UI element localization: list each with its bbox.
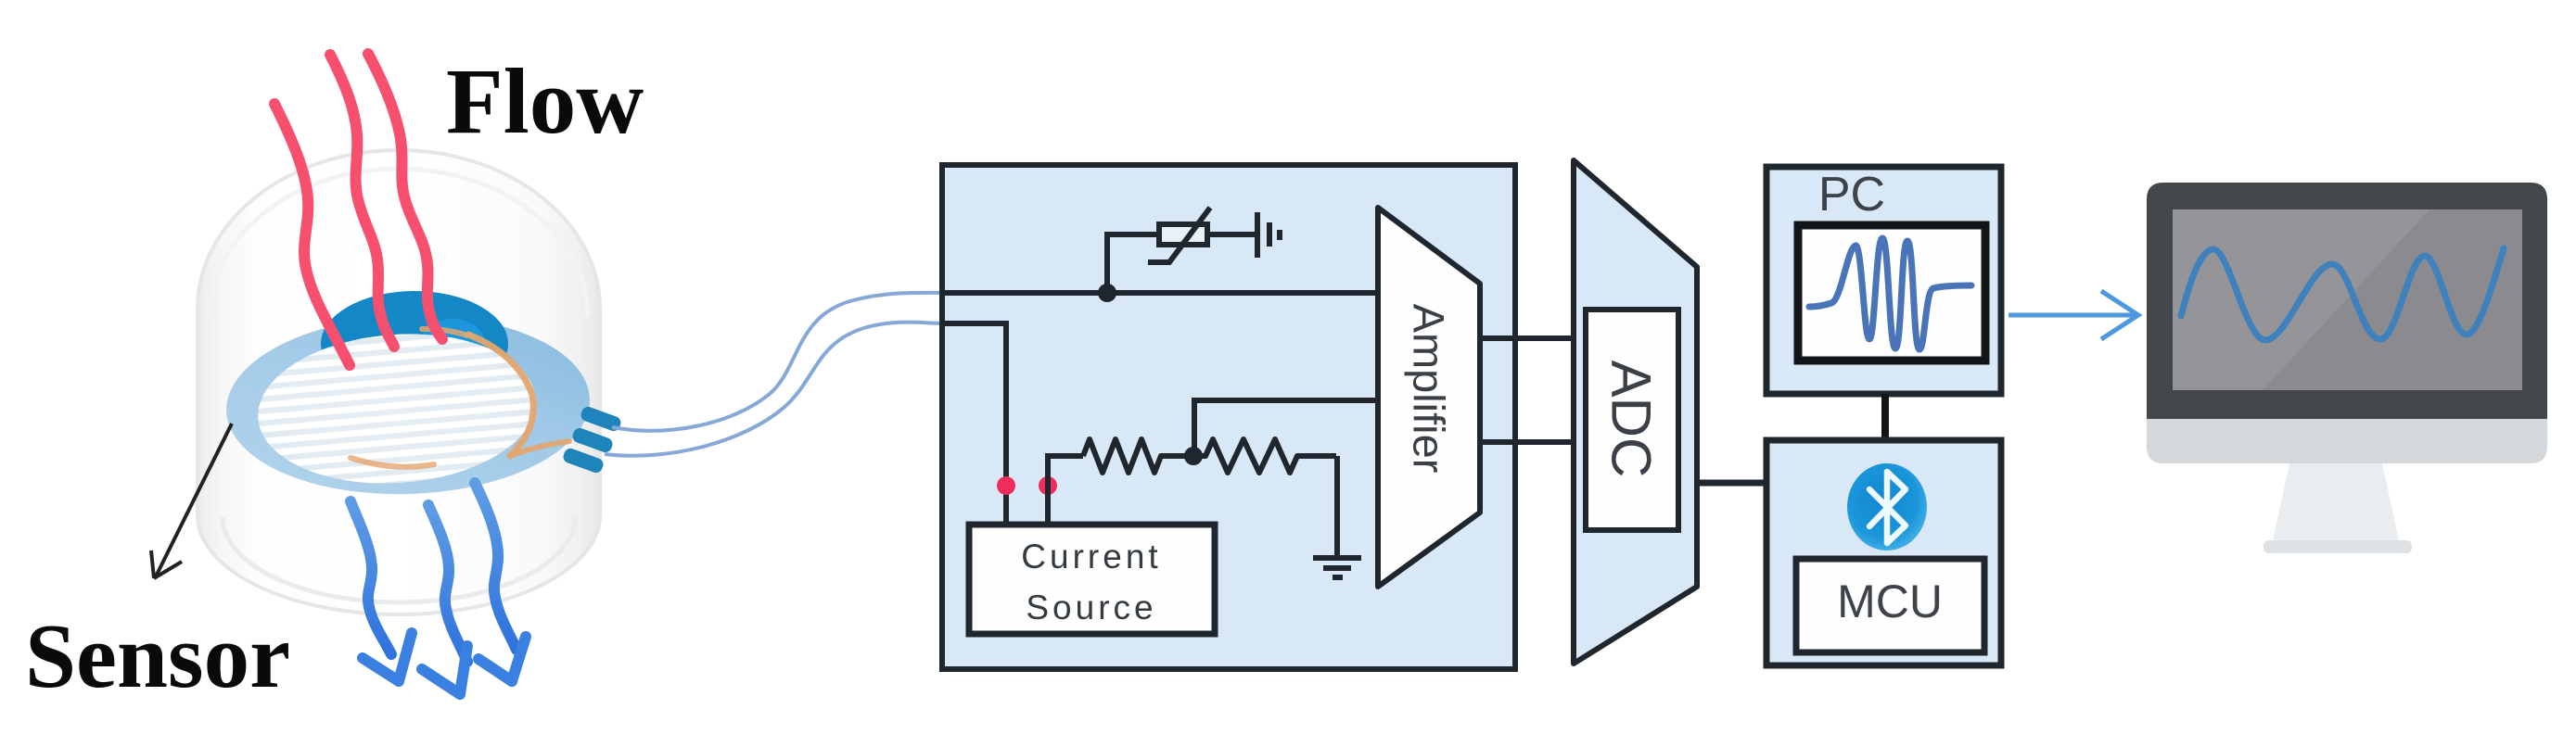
connector tabs bbox=[562, 405, 623, 475]
flow arrow in 3 bbox=[368, 54, 442, 339]
sensor disc dark rim bbox=[321, 291, 508, 397]
flow arrow out 3 bbox=[475, 483, 526, 681]
PC plot frame bbox=[1798, 225, 1985, 361]
PC waveform bbox=[1809, 238, 1971, 349]
monitor chin bbox=[2147, 371, 2547, 463]
data arrow PC to monitor bbox=[2009, 291, 2138, 339]
wire input 2 to current source bbox=[945, 323, 1006, 525]
monitor screen bbox=[2173, 209, 2522, 390]
ground bbox=[1313, 558, 1361, 577]
wire ADC to MCU bbox=[1697, 480, 1766, 487]
MCU box bbox=[1766, 440, 2001, 665]
test point dot 1 bbox=[997, 476, 1015, 495]
wire J2 to amplifier input bbox=[1194, 400, 1378, 456]
monitor stand bbox=[2273, 463, 2399, 540]
op-amp U1 Amplifier bbox=[1378, 208, 1480, 587]
svg-text:Amplifier: Amplifier bbox=[1405, 304, 1454, 474]
MCU inner box bbox=[1796, 559, 1984, 652]
wire thermistor to chassis ground bbox=[1207, 232, 1257, 237]
resistor R1 bbox=[1083, 439, 1185, 473]
wire amp output 2 bbox=[1480, 439, 1574, 445]
svg-text:MCU: MCU bbox=[1837, 576, 1943, 627]
MONITOR bbox=[2147, 183, 2547, 553]
wire input 1 bbox=[945, 290, 1378, 296]
test point dot 2 bbox=[1039, 476, 1057, 495]
svg-text:Current: Current bbox=[1021, 538, 1161, 576]
svg-text:Source: Source bbox=[1026, 588, 1156, 626]
sensor membrane mesh bbox=[235, 316, 563, 506]
thermistor RT bbox=[1148, 208, 1210, 262]
svg-text:PC: PC bbox=[1818, 168, 1885, 221]
wire PC to MCU bbox=[1881, 394, 1889, 440]
CIRCUIT-BOX analog front-end bbox=[942, 165, 1515, 669]
chassis ground (rotated) bbox=[1257, 212, 1280, 258]
wire current source to resistor R1 bbox=[1048, 456, 1083, 525]
sensor lead wire lower bbox=[605, 323, 948, 456]
tube (glass cylinder) bbox=[198, 150, 600, 614]
bluetooth icon bbox=[1847, 463, 1927, 550]
flow arrow in 1 bbox=[274, 104, 350, 365]
wire stub J1 to thermistor bbox=[1107, 234, 1159, 293]
monitor bezel bbox=[2147, 183, 2547, 419]
sensor lead wire upper bbox=[612, 293, 948, 431]
node J2 bbox=[1184, 447, 1203, 465]
current source box bbox=[969, 525, 1215, 634]
flow arrow out 2 bbox=[422, 505, 467, 694]
svg-text:Sensor: Sensor bbox=[25, 606, 290, 707]
svg-text:Flow: Flow bbox=[446, 49, 644, 153]
ADC block bbox=[1574, 160, 1697, 664]
monitor sine wave bbox=[2181, 248, 2504, 340]
wire R2 to ground bbox=[1334, 456, 1340, 557]
sensor trace (orange) bbox=[351, 329, 569, 467]
svg-text:ADC: ADC bbox=[1600, 361, 1663, 478]
flow arrow out 1 bbox=[351, 501, 412, 681]
resistor R2 bbox=[1193, 439, 1336, 473]
PC box bbox=[1766, 167, 2001, 394]
sensor pointer arrow bbox=[151, 424, 232, 578]
screen reflection bbox=[2173, 209, 2429, 390]
sensor disc ring bbox=[223, 310, 593, 500]
node J1 bbox=[1098, 284, 1116, 302]
flow arrow in 2 bbox=[330, 55, 394, 347]
monitor base bbox=[2264, 540, 2412, 553]
wire amp output 1 bbox=[1480, 335, 1574, 341]
